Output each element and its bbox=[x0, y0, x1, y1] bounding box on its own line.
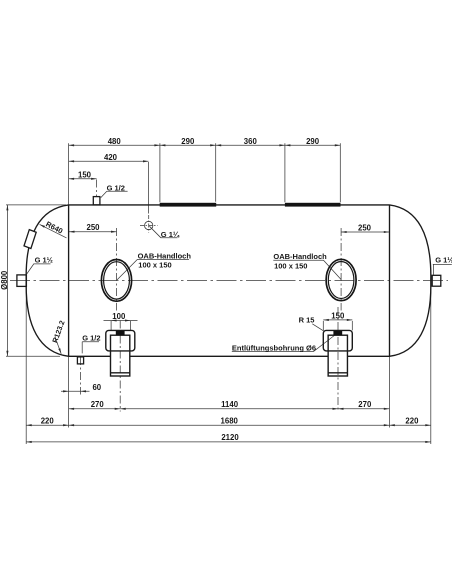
svg-text:290: 290 bbox=[306, 137, 320, 146]
svg-text:G 1/2: G 1/2 bbox=[82, 334, 100, 343]
svg-text:270: 270 bbox=[358, 400, 372, 409]
svg-text:60: 60 bbox=[92, 383, 101, 392]
svg-text:OAB-Handloch: OAB-Handloch bbox=[138, 252, 192, 261]
svg-text:100 x 150: 100 x 150 bbox=[274, 261, 307, 270]
svg-text:R 15: R 15 bbox=[299, 316, 315, 325]
svg-text:250: 250 bbox=[358, 224, 372, 233]
svg-text:Entlüftungsbohrung Ø6: Entlüftungsbohrung Ø6 bbox=[232, 343, 316, 352]
svg-text:290: 290 bbox=[181, 137, 195, 146]
svg-text:360: 360 bbox=[244, 137, 258, 146]
svg-text:420: 420 bbox=[104, 153, 118, 162]
svg-text:2120: 2120 bbox=[221, 433, 239, 442]
svg-text:G 1¼: G 1¼ bbox=[161, 230, 180, 239]
svg-text:100 x 150: 100 x 150 bbox=[138, 261, 171, 270]
svg-text:1680: 1680 bbox=[221, 417, 239, 426]
svg-text:270: 270 bbox=[91, 400, 105, 409]
svg-text:150: 150 bbox=[78, 170, 92, 179]
svg-text:150: 150 bbox=[331, 311, 345, 320]
svg-text:220: 220 bbox=[41, 417, 55, 426]
svg-text:R123.2: R123.2 bbox=[50, 319, 66, 344]
svg-text:220: 220 bbox=[405, 417, 419, 426]
svg-text:G 1½: G 1½ bbox=[35, 255, 53, 264]
svg-text:480: 480 bbox=[108, 137, 122, 146]
svg-text:G 1½: G 1½ bbox=[435, 256, 452, 265]
svg-text:R640: R640 bbox=[44, 219, 64, 235]
svg-text:100: 100 bbox=[112, 312, 126, 321]
svg-text:Ø800: Ø800 bbox=[0, 270, 9, 290]
svg-text:G 1/2: G 1/2 bbox=[107, 184, 125, 193]
svg-text:OAB-Handloch: OAB-Handloch bbox=[273, 252, 327, 261]
svg-text:250: 250 bbox=[86, 223, 100, 232]
svg-text:1140: 1140 bbox=[221, 400, 239, 409]
